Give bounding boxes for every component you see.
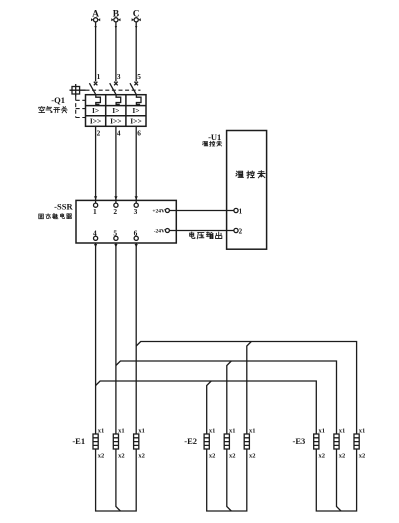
- wire phase C feeder: [136, 342, 356, 435]
- heater E1.1: [93, 427, 104, 459]
- U1 pin 2: [234, 227, 243, 235]
- wire E1 star bus: [96, 449, 137, 511]
- svg-text:x2: x2: [359, 453, 366, 460]
- svg-text:3: 3: [134, 207, 138, 216]
- svg-text:2: 2: [113, 207, 117, 216]
- svg-text:I>: I>: [92, 106, 99, 115]
- svg-text:I>>: I>>: [90, 116, 101, 125]
- svg-text:+24V: +24V: [152, 209, 165, 215]
- relay SSR box: [76, 200, 176, 243]
- heater E3.3: [354, 427, 365, 459]
- wire Q1 pole3 to SSR: [135, 126, 138, 203]
- wire SSR out phase A: [94, 243, 97, 434]
- U1 pin 1: [234, 207, 243, 215]
- SSR terminal 4: [93, 228, 98, 240]
- breaker Q1 short-circuit labels I>>: [90, 116, 142, 125]
- breaker Q1 linkage dashed: [86, 89, 141, 91]
- svg-text:4: 4: [117, 129, 121, 138]
- wire phase B drop: [115, 22, 117, 82]
- label 电压输出: [190, 232, 222, 239]
- breaker Q1 pole 2 contact: [110, 72, 121, 95]
- breaker Q1 release box: [86, 95, 147, 127]
- SSR terminal 3: [134, 203, 139, 216]
- breaker Q1 trip linkage dashed: [76, 97, 86, 118]
- wire E2 star bus: [207, 449, 247, 511]
- label 温控表 inside U1: [236, 171, 265, 178]
- svg-text:x1: x1: [229, 427, 236, 434]
- svg-text:1: 1: [93, 207, 97, 216]
- heater E3.2: [334, 427, 345, 459]
- svg-text:x1: x1: [249, 427, 256, 434]
- svg-text:-SSR: -SSR: [54, 202, 73, 212]
- breaker Q1 pole 1 contact: [89, 72, 100, 95]
- heater E1.2: [113, 427, 124, 459]
- breaker Q1 thermal release 3: [136, 95, 141, 105]
- SSR terminal 5: [113, 228, 118, 240]
- breaker Q1 pole 3 contact: [130, 72, 141, 95]
- svg-text:x2: x2: [98, 453, 105, 460]
- wire Q1 pole2 to SSR: [114, 126, 117, 203]
- breaker Q1 overcurrent labels I>: [92, 106, 140, 115]
- wire E3 star bus: [316, 449, 356, 511]
- heater E2.3: [244, 427, 255, 459]
- svg-text:1: 1: [97, 72, 101, 81]
- wire SSR -24V to U1 pin2: [169, 230, 234, 232]
- controller U1 box: [227, 131, 267, 250]
- wire SSR out phase B: [114, 243, 117, 434]
- breaker Q1 thermal release 1: [96, 95, 101, 105]
- heater E1.3: [134, 427, 145, 459]
- breaker Q1 handle: [70, 84, 86, 97]
- svg-text:x2: x2: [138, 453, 145, 460]
- svg-text:x1: x1: [339, 427, 346, 434]
- svg-text:-E1: -E1: [72, 436, 85, 446]
- SSR terminal 6: [134, 228, 139, 240]
- svg-text:3: 3: [117, 72, 121, 81]
- svg-text:I>>: I>>: [110, 116, 121, 125]
- breaker Q1 label: [51, 95, 65, 105]
- breaker Q1 thermal release 2: [116, 95, 121, 105]
- SSR -24V terminal: [154, 229, 170, 235]
- svg-text:5: 5: [137, 72, 141, 81]
- svg-text:x1: x1: [319, 427, 326, 434]
- heater E2.2: [224, 427, 235, 459]
- SSR +24V terminal: [152, 209, 169, 215]
- svg-text:-Q1: -Q1: [51, 95, 65, 105]
- svg-text:-24V: -24V: [154, 229, 165, 235]
- svg-text:I>>: I>>: [130, 116, 141, 125]
- heater E3.1: [314, 427, 325, 459]
- svg-text:x1: x1: [98, 427, 105, 434]
- node C: [132, 10, 141, 22]
- wire SSR +24V to U1 pin1: [169, 210, 234, 212]
- wire phase A feeder: [96, 381, 317, 434]
- svg-text:x2: x2: [229, 453, 236, 460]
- svg-text:2: 2: [97, 129, 101, 138]
- wire phase B feeder: [116, 361, 337, 434]
- svg-text:-U1: -U1: [208, 132, 221, 142]
- SSR terminal 1: [93, 203, 98, 216]
- svg-text:6: 6: [137, 129, 141, 138]
- svg-text:x2: x2: [209, 453, 216, 460]
- label 固态继电器: [39, 213, 72, 218]
- svg-text:-E2: -E2: [184, 436, 197, 446]
- svg-text:I>: I>: [112, 106, 119, 115]
- svg-text:x2: x2: [319, 453, 326, 460]
- wire SSR out phase C: [135, 243, 138, 434]
- svg-text:x2: x2: [118, 453, 125, 460]
- svg-text:I>: I>: [132, 106, 139, 115]
- node B: [111, 10, 120, 22]
- svg-text:x1: x1: [138, 427, 145, 434]
- label 温控表 small: [202, 141, 221, 146]
- SSR terminal 2: [113, 203, 118, 216]
- node A: [91, 10, 100, 22]
- label 空气开关: [39, 106, 67, 112]
- svg-text:-E3: -E3: [293, 436, 306, 446]
- svg-text:x1: x1: [209, 427, 216, 434]
- svg-text:x1: x1: [359, 427, 366, 434]
- heater E2.1: [204, 427, 215, 459]
- svg-text:2: 2: [239, 227, 243, 235]
- wire phase A drop: [94, 22, 96, 82]
- svg-text:x1: x1: [118, 427, 125, 434]
- wire phase C drop: [135, 22, 137, 82]
- svg-text:x2: x2: [249, 453, 256, 460]
- svg-text:1: 1: [239, 207, 243, 215]
- svg-text:x2: x2: [339, 453, 346, 460]
- wire Q1 pole1 to SSR: [94, 126, 97, 203]
- breaker Q1 bottom terminal numbers: [97, 129, 142, 138]
